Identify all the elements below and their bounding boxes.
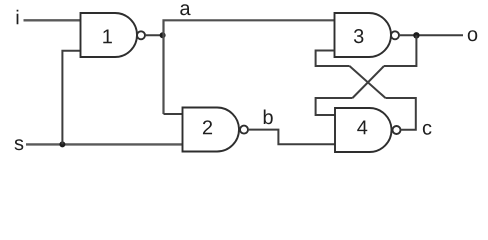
wire: gate 3 output to output o [399,34,463,36]
wire: gate 1 output to node a junction [145,34,164,36]
output label o [468,30,477,41]
wire: cross diagonal from gate 3 rail down to gate 4 side [353,66,385,98]
nand gate 4 body [335,108,392,152]
wire: gate 2 output node b to gate 4 bottom input [248,130,335,145]
wire: node a branch to gate 2 top input [164,113,183,115]
gate 4 label [357,121,367,135]
junction on s wire [59,141,65,147]
nand gate 3 output bubble [391,31,399,39]
wire: node a vertical riser and run to gate 3 top input [164,20,335,114]
nand gate 2 output bubble [240,126,248,134]
node label b [264,110,273,125]
input label s [15,139,24,150]
nand gate 2 body [183,108,240,152]
gate 1 label [103,29,112,43]
wire: gate 3 output down to cross rail [384,35,416,66]
output label c [423,124,432,135]
wire: input s to gate 2 bottom input [26,143,183,145]
wire: cross diagonal from gate 4 rail up to gate 3 side [350,66,386,98]
nand gate 4 output bubble [393,126,401,134]
wire: s branch up to gate 1 bottom input [62,51,81,145]
nand gate 3 body [335,13,392,57]
nand gate 1 body [81,13,138,57]
gate 3 label [354,29,363,43]
junction on gate 3 output [413,32,419,38]
wire: upper-left rail to gate 3 bottom input [316,51,350,67]
input label i [17,10,19,24]
wire: input i to gate 1 top input [24,19,82,21]
wire: lower-left rail to gate 4 top input [316,98,353,115]
nand gate 1 output bubble [137,31,145,39]
gate 2 label [203,120,212,134]
node label a [180,4,190,15]
junction node a [160,32,166,38]
wire: gate 4 output up to cross rail [386,98,416,130]
